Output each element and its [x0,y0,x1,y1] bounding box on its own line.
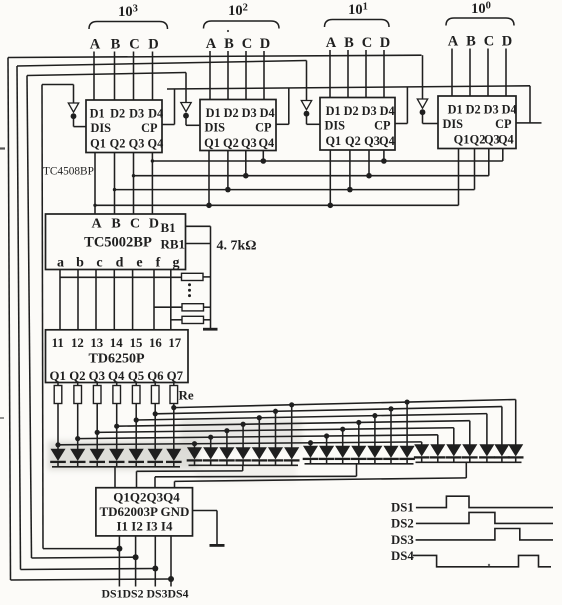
svg-text:DS3: DS3 [391,533,414,547]
wire resistor Ra to rail [203,276,211,278]
svg-text:4. 7kΩ: 4. 7kΩ [217,239,257,254]
wires A-D to D1-D4 of digit 3 latch [330,50,384,98]
svg-text:Q7: Q7 [167,369,184,383]
sink driver U7 TD62003P [96,488,193,536]
svg-text:TC5002BP: TC5002BP [84,235,152,251]
input nodes A B C D of digit 2 [206,36,270,52]
svg-text:B: B [344,35,354,51]
decoder U5 TC5002BP [46,214,186,271]
svg-text:D2: D2 [344,104,359,118]
latch U2 TC4508BP digit 2 [200,100,276,151]
svg-text:D2: D2 [224,106,239,120]
diode D7 (digit 1 segment g) [166,404,182,467]
svg-text:D2: D2 [110,107,125,121]
junction Q3 bus at digit 3 [366,173,372,179]
wire segment bus a (Q1) to diode matrix [58,442,422,445]
svg-text:D3: D3 [242,106,257,120]
driver U6 TD6250P [46,330,189,383]
resistor Ra (4.7k) [182,273,204,280]
resistor Rg (4.7k) [182,316,204,323]
diode D11 (digit 2 segment d) [235,422,251,466]
wire net DS4 bottom horizontal to I4 [11,579,172,580]
wire B1 pin to resistor rail [186,226,211,328]
svg-text:C: C [129,37,139,53]
wire CP pin digit 4 to bus [516,86,530,123]
wires digit-3 Q1-Q4 to buses [330,150,384,205]
svg-text:B1: B1 [161,220,176,235]
diode D17 (digit 3 segment c) [335,427,351,464]
wire CP pin digit 1 to bus [162,89,174,125]
junction DS3 at I3 [152,566,158,572]
junction Q2 bus at digit 1 [113,188,116,191]
diode D15 (digit 3 segment a) [303,440,319,464]
wire CP pin digit 2 to bus [276,88,289,124]
svg-text:Q4: Q4 [108,369,125,383]
diode D13 (digit 2 segment f) [268,409,284,466]
svg-text:D2: D2 [466,103,481,117]
input nodes A B C D of digit 4 [448,34,512,50]
diode D18 (digit 3 segment d) [351,420,367,464]
diode D25 (digit 4 segment d) [462,421,478,463]
svg-text:A: A [90,37,101,53]
svg-text:D3: D3 [484,103,499,117]
wire net DS2 bottom horizontal to I2 [32,556,136,559]
svg-text:Q1: Q1 [204,136,220,150]
diode D24 (digit 4 segment c) [446,428,462,463]
diode D28 (digit 4 segment g) [508,399,524,462]
svg-text:D3: D3 [129,107,144,121]
wire cathode common of digit 2 diode group [189,464,299,466]
junction Q3 bus at digit 2 [243,173,249,179]
brace over digit 3 inputs [325,20,390,28]
svg-text:C: C [362,35,372,51]
svg-text:DS3DS4: DS3DS4 [147,587,189,601]
svg-text:A: A [91,217,102,232]
wire net DS2 feed vertical into inverter 2 [185,73,187,103]
wire CP pin digit 3 to bus [395,87,407,124]
svg-text:b: b [76,256,84,271]
wire segment g to resistor Rg [171,319,182,321]
svg-text:17: 17 [168,336,181,350]
wire Q4 driver output to resistor [116,383,118,386]
svg-text:14: 14 [110,336,123,350]
svg-text:D3: D3 [362,104,377,118]
svg-text:D4: D4 [502,103,517,117]
svg-text:RB1: RB1 [161,237,186,252]
junction Q1 bus at digit 1 [93,204,96,207]
wire inverter output to DIS pin of digit 4 [423,115,439,124]
svg-text:Q6: Q6 [147,369,164,383]
svg-text:D1: D1 [448,103,463,117]
wire segment f to resistor Rf [154,306,182,308]
junction Q3 bus at digit 1 [132,174,135,177]
wire Q1 driver output to resistor [57,383,59,386]
diode D9 (digit 2 segment b) [203,435,219,466]
wire resistor Rf to rail [204,306,211,308]
svg-text:TD6250P: TD6250P [89,352,145,367]
svg-text:Q4: Q4 [379,134,395,148]
wire inverter output to DIS pin of digit 3 [307,116,321,124]
svg-text:D: D [260,36,270,52]
diode D12 (digit 2 segment e) [252,415,268,465]
diode D27 (digit 4 segment f) [494,407,510,463]
svg-text:DS1: DS1 [391,501,414,515]
wire RB1 pin to resistor rail [186,243,211,245]
svg-text:CP: CP [255,121,272,135]
wire digit-1 common to sink Q1 pin [114,467,116,488]
resistor Rf (4.7k) [182,304,204,311]
svg-text:D4: D4 [380,104,395,118]
wire segment a to resistor Ra [60,276,182,278]
junction DS4 at I4 [168,576,174,582]
wire Q3 data bus [134,175,489,177]
wire net DS1 top horizontal (to digit-1 inverter) [42,84,74,86]
wire I1 input of sink driver [118,536,120,587]
wire Q6 driver output to resistor [154,383,156,386]
svg-text:d: d [116,256,124,271]
wires digit-1 Q1-Q4 down to decoder inputs A-D [95,153,152,215]
wire net DS2 left vertical [27,76,32,559]
svg-text:CP: CP [374,119,391,133]
svg-text:TC4508BP: TC4508BP [43,166,94,178]
wire Q5 driver output to resistor [135,383,137,386]
diode D1 (digit 1 segment a) [50,404,66,467]
wire I2 input of sink driver [135,536,137,587]
svg-text:Q3: Q3 [89,369,105,383]
wire segment bus g (Q7) to diode matrix [174,399,516,407]
resistor Re2 [74,386,82,404]
svg-text:16: 16 [149,336,162,350]
svg-text:CP: CP [141,121,158,135]
waveform DS4 [413,555,551,566]
diode D10 (digit 2 segment c) [219,428,235,465]
wire Q1 data bus [95,204,459,206]
diode D22 (digit 4 segment a) [414,442,430,462]
svg-text:C: C [484,34,494,50]
svg-text:D: D [148,37,158,53]
diode D3 (digit 1 segment c) [89,404,105,467]
svg-text:DIS: DIS [91,121,112,135]
wire I3 input of sink driver [154,536,156,587]
svg-text:Q4: Q4 [258,136,274,150]
svg-text:CP: CP [495,117,512,131]
diode D8 (digit 2 segment a) [187,441,203,465]
wire net DS3 feed vertical into inverter 3 [306,61,308,101]
junction Q4 bus at digit 2 [261,158,267,164]
wire net DS3 left vertical [17,66,21,570]
junction Q4 bus at digit 1 [151,159,154,162]
junction Q1 bus at digit 2 [206,203,212,209]
svg-text:D: D [380,35,390,51]
wire cathode common of digit 1 diode group [52,466,180,468]
svg-text:13: 13 [90,336,103,350]
wires digit-2 Q1-Q4 to buses [209,151,263,206]
resistor Re3 [93,386,101,404]
diode D6 (digit 1 segment f) [147,404,163,467]
svg-text:A: A [326,35,337,51]
svg-text:f: f [156,256,161,271]
svg-text:DIS: DIS [443,117,464,131]
svg-text:D4: D4 [260,106,275,120]
waveform DS3 [416,529,553,540]
resistor Re1 [54,386,62,404]
svg-text:DS4: DS4 [391,549,414,563]
svg-text:Q1Q2Q3Q4: Q1Q2Q3Q4 [113,490,180,505]
junction DS2 at I2 [133,554,139,560]
wire net DS4 left vertical [8,58,11,581]
wires segments a-g to driver inputs 11-17 [60,270,171,330]
svg-text:B: B [111,37,121,53]
ground (resistor rail) [203,328,218,331]
svg-text:D: D [149,217,159,232]
svg-text:Q4: Q4 [498,133,514,147]
diode D14 (digit 2 segment g) [284,402,300,465]
wire net DS3 top horizontal (to digit-3 inverter) [17,61,307,67]
svg-text:B: B [466,34,476,50]
svg-text:Q3: Q3 [129,137,145,151]
svg-text:D1: D1 [90,107,105,121]
svg-text:A: A [206,36,217,52]
svg-text:Q3: Q3 [364,134,380,148]
svg-text:DS2: DS2 [391,517,414,531]
brace over digit 1 inputs [89,22,168,30]
wires A-D to D1-D4 of digit 4 latch [452,49,506,97]
inverter (DIS driver) of digit 3 [301,101,311,117]
ground (TD62003P GND) [210,544,225,547]
resistor Re5 [132,386,140,404]
wire segment bus d (Q4) to diode matrix [117,421,470,427]
wire net DS2 top horizontal (to digit-2 inverter) [27,73,186,76]
wire CP external clock stub [530,122,542,124]
junction DS1 at I1 [116,546,122,552]
svg-text:12: 12 [71,336,84,350]
svg-text:Q5: Q5 [128,369,144,383]
wire digit-2 common to sink Q2 pin [137,465,243,487]
input nodes A B C D of digit 1 [90,37,159,53]
svg-text:Q3: Q3 [241,136,257,150]
junction Q2 bus at digit 3 [347,187,353,193]
svg-text:Q1: Q1 [50,369,66,383]
svg-text:a: a [57,256,64,271]
svg-text:Q2: Q2 [110,137,126,151]
junction Q2 bus at digit 2 [225,187,231,193]
wire Q2 data bus [115,189,475,191]
wire segment bus c (Q3) to diode matrix [97,428,454,433]
wire net DS4 feed vertical into inverter 4 [422,55,424,99]
wire net DS4 top horizontal (to digit-4 inverter) [8,55,422,57]
diode D23 (digit 4 segment b) [430,435,446,462]
ellipsis dots (omitted resistors b-e) [188,283,191,297]
wire Q7 driver output to resistor [173,383,175,386]
wire segment bus f (Q6) to diode matrix [155,407,502,414]
svg-text:DIS: DIS [325,119,346,133]
svg-text:B: B [224,36,234,52]
svg-text:g: g [173,256,180,271]
svg-text:DS1DS2: DS1DS2 [102,587,144,601]
svg-text:A: A [448,34,459,50]
svg-text:C: C [130,217,140,232]
wire inverter output to DIS pin of digit 2 [186,118,200,125]
svg-text:Q4: Q4 [148,137,164,151]
wires digit-4 Q1-Q4 to bus ends [459,149,503,206]
waveform DS2 [416,512,553,523]
svg-text:D1: D1 [206,106,221,120]
wire Q3 driver output to resistor [96,383,98,386]
junction Q4 bus at digit 3 [381,158,387,164]
diode D21 (digit 3 segment g) [399,399,415,463]
svg-text:11: 11 [52,336,64,350]
diode D16 (digit 3 segment b) [319,433,335,463]
wire segment bus b (Q2) to diode matrix [78,435,438,439]
svg-text:Q1: Q1 [454,133,470,147]
wire Q4 data bus [152,160,502,162]
diode D5 (digit 1 segment e) [128,404,144,467]
latch U4 TC4508BP digit 4 [438,96,517,149]
latch U3 TC4508BP digit 3 [320,98,395,151]
resistor Re6 [151,386,159,404]
svg-text:c: c [96,256,102,271]
wire I4 input of sink driver [170,536,172,587]
resistor Re7 [170,386,178,404]
wire net DS1 feed vertical into inverter 1 [73,85,75,104]
svg-text:TD62003P GND: TD62003P GND [100,504,190,519]
svg-text:Q2: Q2 [223,136,239,150]
diode D2 (digit 1 segment b) [70,404,86,467]
svg-text:D1: D1 [326,104,341,118]
wire cathode common of digit 4 diode group [416,461,522,463]
wires A-D to D1-D4 of digit 2 latch [210,51,264,100]
wire cathode common of digit 3 diode group [305,463,414,465]
wire digit-3 common to sink Q3 pin [155,464,357,488]
wire net DS3 bottom horizontal to I3 [21,569,156,570]
svg-text:Re: Re [179,388,194,403]
wire CP bus horizontal [167,86,530,89]
brace over digit 2 inputs [204,21,280,29]
waveform DS1 [416,496,553,507]
svg-text:D4: D4 [148,107,163,121]
wire segment bus e (Q5) to diode matrix [136,414,487,420]
diode D4 (digit 1 segment d) [109,404,125,467]
diode D26 (digit 4 segment e) [479,414,495,463]
wire GND pin to ground [193,511,218,545]
inverter (DIS driver) of digit 2 [181,103,191,119]
svg-text:Q2: Q2 [69,369,85,383]
diode D19 (digit 3 segment e) [367,413,383,464]
input nodes A B C D of digit 3 [326,35,390,51]
resistor Re4 [113,386,121,404]
junction Q1 bus at digit 3 [328,203,334,209]
inverter (DIS driver) of digit 4 [417,99,427,115]
svg-text:C: C [242,36,252,52]
latch U1 TC4508BP digit 1 [86,100,163,153]
svg-text:B: B [111,217,120,232]
wire Q2 driver output to resistor [77,383,79,386]
svg-text:e: e [136,256,142,271]
brace over digit 4 inputs [446,18,514,26]
wire resistor Rg to rail [204,319,211,321]
wire net DS1 left vertical [42,85,43,549]
svg-text:15: 15 [130,336,143,350]
wires A-D to D1-D4 of digit 1 latch [94,52,153,101]
diode D20 (digit 3 segment f) [383,406,399,464]
svg-text:DIS: DIS [205,121,226,135]
wire net DS1 bottom horizontal to I1 [43,548,119,550]
svg-text:Q1: Q1 [325,134,341,148]
wire inverter output to DIS pin of digit 1 [74,119,87,127]
svg-text:I1 I2 I3 I4: I1 I2 I3 I4 [117,519,173,534]
inverter (DIS driver) of digit 1 [68,103,78,119]
svg-text:Q1: Q1 [90,137,106,151]
svg-text:D: D [502,34,512,50]
wire digit-4 common to sink Q4 pin [175,462,467,487]
svg-text:Q2: Q2 [345,134,361,148]
